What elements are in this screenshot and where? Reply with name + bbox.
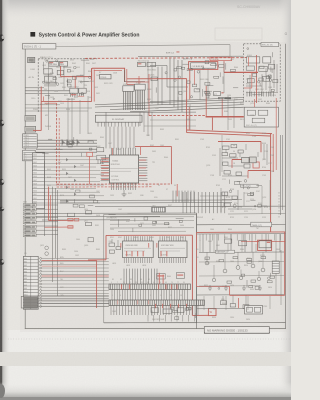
sub-board outline (tuner board) xyxy=(244,42,281,101)
connector CN620 table xyxy=(23,256,38,309)
red board supply box xyxy=(88,235,208,315)
wire rail F xyxy=(42,219,130,221)
ticks below CN623 xyxy=(111,306,198,322)
border frame xyxy=(25,44,286,329)
misc small parts clusters xyxy=(42,48,278,320)
mid small components xyxy=(40,209,93,256)
MCU top pins xyxy=(111,148,135,155)
resonator X602 cluster xyxy=(97,146,106,164)
wire harness rows xyxy=(42,258,109,306)
power amp resistors xyxy=(205,257,275,289)
wire control bus 2 xyxy=(25,142,97,144)
red trace speaker feedback xyxy=(238,298,240,308)
tuner IC606 xyxy=(247,55,271,63)
section label box TNR xyxy=(251,222,272,227)
power switch box xyxy=(28,57,35,62)
top center components xyxy=(137,61,157,91)
wire control bus 4 xyxy=(36,148,97,150)
red trace to marker xyxy=(208,309,216,316)
wire rail C xyxy=(95,205,286,208)
ground symbols amp xyxy=(208,285,262,291)
connector CN606 xyxy=(23,150,36,162)
wire verticals center-top xyxy=(158,58,182,112)
key matrix rows xyxy=(45,156,104,203)
red trace TP601 xyxy=(87,152,93,184)
red power amp box xyxy=(258,240,272,250)
switch stack S620 xyxy=(23,202,36,237)
red trace main bus pair xyxy=(187,98,277,232)
wire rail B xyxy=(60,202,232,204)
red wire harness row 2 xyxy=(42,265,97,267)
MCU left pins xyxy=(101,157,110,180)
LCD display module xyxy=(95,115,142,126)
bar1 labels row xyxy=(111,282,185,284)
board label box xyxy=(241,184,259,188)
connector J600 xyxy=(152,205,166,212)
red trace output loop xyxy=(197,232,285,295)
red trace power bus right xyxy=(197,232,286,242)
red trace B+ dashed rail xyxy=(85,57,247,60)
label EXP.Ld xyxy=(166,51,179,54)
sheet label box xyxy=(22,44,56,49)
CN620 pin circles xyxy=(40,258,42,308)
components below CN623 xyxy=(104,308,286,323)
wire bundle to display board xyxy=(95,97,244,111)
wire control bus 5 xyxy=(36,151,97,153)
output transistors Q801-Q804 xyxy=(205,261,265,282)
red trace tuner supply xyxy=(224,55,258,103)
power amp verticals xyxy=(203,234,280,252)
wire control bus 1 xyxy=(25,139,97,141)
wire rail E xyxy=(25,215,160,217)
sub-board outline (operation board) xyxy=(104,214,197,322)
red trace muting box xyxy=(189,62,218,100)
power amp rail 3 xyxy=(197,308,246,310)
long verticals left-center xyxy=(45,161,58,296)
ticks between bars xyxy=(112,290,187,301)
wire bundle display xyxy=(95,112,196,148)
red marks MCU left pins xyxy=(101,158,109,180)
driver IC621 xyxy=(158,236,187,263)
key ladder verticals xyxy=(124,269,157,285)
power amp wiring xyxy=(207,234,281,305)
wire control bus 3 xyxy=(36,145,97,147)
red dashed data bus horizontal xyxy=(57,184,172,187)
red marks on regulators xyxy=(49,62,84,97)
terminal box right xyxy=(272,261,279,273)
perforation dotted line xyxy=(8,338,291,340)
power supply components cluster xyxy=(44,69,64,87)
red marks on connector bars xyxy=(117,284,187,308)
schematic tone overlay xyxy=(20,42,288,332)
wire stubs CN621 xyxy=(37,296,108,306)
power amp rail 2 xyxy=(197,294,284,296)
extra wires center xyxy=(144,60,234,130)
wire mute logic xyxy=(150,66,188,88)
switch IC604 xyxy=(123,83,145,110)
left column aux labels xyxy=(29,62,50,112)
tuner components xyxy=(246,60,278,97)
microcontroller IC601 (system control) xyxy=(109,155,138,183)
extra wires top-left xyxy=(25,60,92,140)
MCU ground symbol xyxy=(122,190,127,197)
MCU bottom pins xyxy=(111,183,135,190)
led resistor network xyxy=(157,273,185,279)
key switch table S601 xyxy=(32,153,44,209)
power amp input parts xyxy=(224,237,271,248)
red trace MCU VDD xyxy=(112,146,171,184)
vertical wire bundle to operation board xyxy=(173,191,225,214)
MCU right pins xyxy=(139,157,148,180)
relay drive parts xyxy=(220,295,249,308)
red trace +B1 xyxy=(61,66,92,88)
right margin verticals xyxy=(279,135,283,218)
wire stubs S620 xyxy=(36,205,58,234)
red trace key matrix xyxy=(44,103,59,185)
amp label strip xyxy=(216,250,235,254)
red trace power detect xyxy=(96,261,98,308)
red traces to switch ICs xyxy=(127,69,145,84)
display board box xyxy=(244,107,278,127)
red wire harness row 3 xyxy=(42,275,109,277)
connector CN605 xyxy=(23,134,38,150)
extra wires power amp xyxy=(199,234,284,310)
red jumper pair xyxy=(68,218,79,228)
connector CN621 xyxy=(21,296,37,308)
red trace to regulator xyxy=(33,87,92,131)
red trace relay feed xyxy=(127,78,187,80)
key matrix diodes xyxy=(66,158,76,203)
right lower parts xyxy=(221,188,252,212)
speaker relay box xyxy=(245,306,263,315)
rectifier cluster D601-D604 xyxy=(70,87,87,97)
connector CN603 xyxy=(25,115,36,121)
reference designators xyxy=(24,59,280,321)
operation board top wires xyxy=(110,217,194,232)
red trace standby line xyxy=(44,187,73,228)
wire AC rails xyxy=(25,88,70,94)
red trace +B2 vertical pair xyxy=(92,68,95,101)
red trace display feed xyxy=(206,86,255,130)
switch IC603 xyxy=(123,86,134,110)
red power loop box xyxy=(92,68,125,82)
red trace buffer drop xyxy=(187,79,190,133)
connector CN602 xyxy=(214,92,232,100)
red box TOP TIDE xyxy=(210,57,232,61)
parts left of IC620 xyxy=(109,239,121,253)
connector bar CN623 xyxy=(109,300,204,306)
relay RY601 xyxy=(100,74,111,79)
wire branch xyxy=(125,70,145,82)
audio select red path xyxy=(218,142,271,179)
power amp pin comb xyxy=(200,234,281,240)
wire rail A xyxy=(60,199,232,201)
power section divider xyxy=(197,213,286,329)
red trace mute line xyxy=(127,74,222,116)
note box NO MARKING DIODE xyxy=(204,327,269,334)
connector bar CN622 xyxy=(109,284,190,290)
wire rail D xyxy=(25,212,196,214)
red wire harness row 1 xyxy=(42,260,97,262)
red trace data drop xyxy=(176,184,178,196)
red key ladder marks xyxy=(159,273,164,285)
extra wires right column xyxy=(200,135,286,214)
power amp rail 1 xyxy=(199,251,284,253)
red marks MCU right pins xyxy=(139,160,146,177)
sub-board outline (main board) xyxy=(38,56,97,112)
diode row D620-D624 xyxy=(62,139,80,146)
connector CN604 xyxy=(25,126,36,132)
driver IC620 xyxy=(123,236,154,263)
red marks under driver ICs xyxy=(120,243,167,256)
title block xyxy=(30,32,139,38)
regulator IC601 xyxy=(49,62,59,67)
audio select parts cluster xyxy=(220,144,267,176)
regulator IC602 xyxy=(59,62,67,67)
